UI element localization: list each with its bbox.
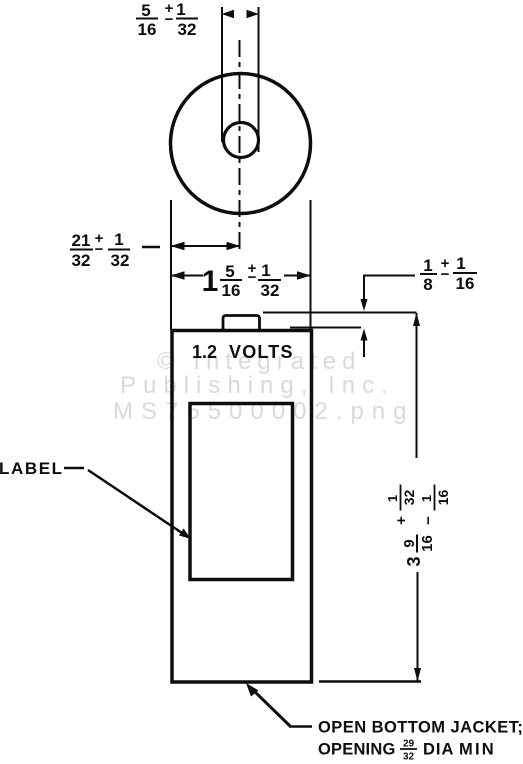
svg-text:DIA: DIA: [423, 741, 454, 759]
svg-text:3: 3: [404, 556, 424, 566]
dimension text 21/32 +-1/32: [72, 230, 130, 270]
battery outer circle (top view): [171, 74, 311, 214]
button terminal (side view): [223, 316, 260, 332]
svg-text:1: 1: [456, 254, 465, 273]
svg-text:1: 1: [261, 261, 270, 280]
vertical centerline: [239, 40, 241, 251]
extension line left circle edge: [170, 200, 172, 330]
svg-text:5: 5: [141, 1, 150, 20]
svg-text:1: 1: [385, 495, 400, 502]
label leader arrowhead: [179, 529, 191, 540]
svg-text:1: 1: [423, 256, 432, 275]
svg-text:−: −: [165, 11, 174, 28]
svg-text:1: 1: [419, 495, 434, 502]
svg-text:1: 1: [176, 0, 185, 19]
svg-text:32: 32: [401, 490, 417, 506]
rotated dimension text 3 9/16 +1/32 -1/16: [385, 485, 451, 567]
svg-text:OPENING: OPENING: [318, 741, 396, 759]
dimension text 5/16 +-1/32: [138, 0, 197, 39]
svg-text:1.2: 1.2: [192, 342, 217, 362]
svg-text:21: 21: [72, 231, 91, 250]
label rectangle: [190, 404, 293, 580]
jacket outline: [172, 331, 312, 683]
svg-text:VOLTS: VOLTS: [229, 342, 294, 362]
svg-text:16: 16: [419, 535, 436, 552]
dim 1/8 down arrow: [363, 276, 365, 302]
button top reference line: [263, 312, 417, 314]
label leader diagonal: [88, 470, 185, 535]
svg-text:+: +: [393, 516, 410, 525]
svg-text:8: 8: [423, 275, 432, 294]
dimension line 21/32: [171, 245, 240, 247]
OPENING 29/32 DIA MIN text: [318, 739, 496, 763]
svg-text:−: −: [248, 269, 257, 286]
svg-text:5: 5: [225, 262, 234, 281]
jacket top extension right: [290, 327, 361, 329]
svg-text:32: 32: [72, 251, 91, 270]
svg-text:16: 16: [435, 490, 451, 506]
label leader dash: [64, 467, 84, 470]
dimension line 1 5/16: right segment and arrow: [284, 275, 311, 277]
svg-text:1: 1: [114, 230, 123, 249]
svg-text:16: 16: [456, 274, 475, 293]
bottom leader diagonal: [252, 689, 290, 726]
dimension text 1 5/16 +-1/32: [202, 260, 280, 300]
svg-text:32: 32: [403, 752, 415, 763]
overall height dimension line top segment: [416, 313, 418, 458]
dimension text 1/8 +-1/16: [423, 254, 474, 294]
leader dash from 21/32 text: [142, 246, 160, 249]
extension line left of button dia: [221, 7, 223, 142]
dimension arrow right (5/16): [247, 10, 260, 18]
svg-text:−: −: [95, 241, 104, 258]
bottom extension line: [319, 680, 421, 683]
svg-text:MIN: MIN: [459, 741, 496, 759]
svg-text:32: 32: [261, 281, 280, 300]
dimension line 1 5/16: left segment and arrow: [171, 275, 203, 277]
svg-text:29: 29: [403, 739, 415, 750]
svg-text:32: 32: [111, 251, 130, 270]
button terminal circle (top view): [224, 123, 259, 158]
extension line right circle edge: [310, 200, 312, 330]
svg-text:9: 9: [401, 539, 418, 547]
svg-text:−: −: [441, 266, 450, 283]
svg-text:1: 1: [202, 265, 219, 298]
svg-text:OPEN BOTTOM JACKET;: OPEN BOTTOM JACKET;: [318, 719, 523, 737]
dimension arrow left (5/16): [222, 10, 235, 18]
overall height dimension line bottom segment: [417, 572, 419, 681]
bottom leader horizontal: [289, 725, 312, 728]
extension line right of button dia: [258, 7, 260, 152]
svg-text:16: 16: [222, 281, 241, 300]
svg-text:LABEL: LABEL: [0, 459, 64, 478]
bottom leader arrowhead: [246, 683, 259, 697]
svg-text:−: −: [420, 516, 437, 525]
dim 1/8 up arrow: [363, 340, 365, 357]
svg-text:16: 16: [138, 20, 157, 39]
svg-text:Publishing, Inc.: Publishing, Inc.: [120, 372, 395, 399]
svg-text:32: 32: [178, 20, 197, 39]
leader to 1/8 text: [363, 275, 415, 277]
